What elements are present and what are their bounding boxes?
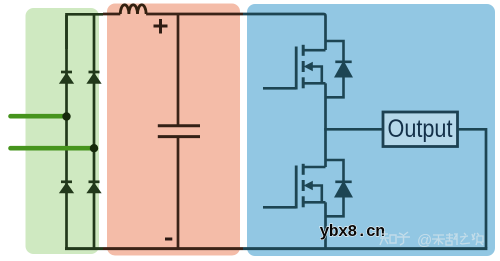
Q1 body arrow head xyxy=(304,62,313,72)
DC filter stage panel (pink) xyxy=(107,4,240,256)
junction node on right leg xyxy=(90,144,98,152)
Q2 body arrow lead xyxy=(309,186,322,203)
diode D5 (Q1 body diode) xyxy=(326,41,344,97)
diode D4 (lower right) xyxy=(87,182,100,193)
label: plus sign xyxy=(154,19,168,34)
Q2 source channel dash xyxy=(302,196,305,207)
Q1 gate bar xyxy=(295,47,298,90)
wire: Q2 source to bottom rail xyxy=(324,202,327,249)
Q1 gate lead xyxy=(263,87,296,90)
Q2 drain channel dash xyxy=(302,164,305,175)
Q2 drain lead from midpoint xyxy=(324,128,327,167)
AC input line 1 xyxy=(11,114,67,119)
wire: top rail from inductor to blue panel xyxy=(146,13,243,16)
wire: top rail blue segment to Q1 drain xyxy=(243,14,326,50)
wire: top rail pink segment (rectifier output to inductor) xyxy=(103,13,120,16)
svg-text:Output: Output xyxy=(388,115,453,143)
inductor L1 xyxy=(120,5,146,14)
AC input line 2 xyxy=(11,146,95,151)
wire: capacitor top lead xyxy=(177,14,180,125)
wire: top rail in green panel xyxy=(67,14,104,49)
label: minus sign xyxy=(165,238,172,241)
char dong xyxy=(432,235,445,245)
Q1 body arrow lead xyxy=(309,67,322,84)
Q2 body arrow head xyxy=(304,181,313,191)
capacitor C1 xyxy=(158,126,200,137)
Q1 drain stub xyxy=(304,49,326,52)
wire: capacitor bottom lead xyxy=(177,138,180,249)
Q1 source channel dash xyxy=(302,77,305,88)
transistor Q2 (low side MOSFET) xyxy=(263,128,326,209)
diode D1 (upper left) xyxy=(60,72,73,83)
Q2 gate bar xyxy=(295,166,298,209)
Q2 source stub xyxy=(304,201,326,204)
watermark: zhihu characters xyxy=(380,231,410,245)
Q2 drain stub xyxy=(304,166,326,169)
wire: right bridge leg xyxy=(93,15,96,249)
Q1 drain channel dash xyxy=(302,45,305,56)
svg-text:@: @ xyxy=(417,232,432,249)
char zhi xyxy=(380,231,396,245)
svg-text:ybx8.cn: ybx8.cn xyxy=(320,222,385,241)
wire: left bridge leg xyxy=(65,15,68,249)
char hu xyxy=(397,232,410,245)
wire: bottom rail green segment xyxy=(67,247,104,249)
wire: bottom rail blue segment xyxy=(243,247,487,250)
char du xyxy=(446,233,457,245)
Q1 body channel dash xyxy=(302,61,305,72)
wire: midpoint node to output box xyxy=(326,128,384,131)
inverter stage panel (blue) xyxy=(247,4,495,256)
char zhi2 xyxy=(460,233,470,244)
output box xyxy=(383,112,458,147)
diode D2 (upper right) xyxy=(87,72,100,83)
Q2 body channel dash xyxy=(302,180,305,191)
Q2 gate lead xyxy=(263,206,296,209)
AC input stage panel (green) xyxy=(26,8,100,254)
diode D6 (Q2 body diode) xyxy=(326,160,344,216)
char lang xyxy=(472,233,483,245)
diode D3 (lower left) xyxy=(60,182,73,193)
wire: Q1 source to midpoint node xyxy=(324,83,327,130)
Q1 source stub xyxy=(304,82,326,85)
transistor Q1 (high side MOSFET) xyxy=(263,45,326,90)
wire: output box to right drop xyxy=(458,129,487,248)
junction node on left leg xyxy=(62,112,70,120)
wire: bottom rail pink segment xyxy=(103,247,243,250)
